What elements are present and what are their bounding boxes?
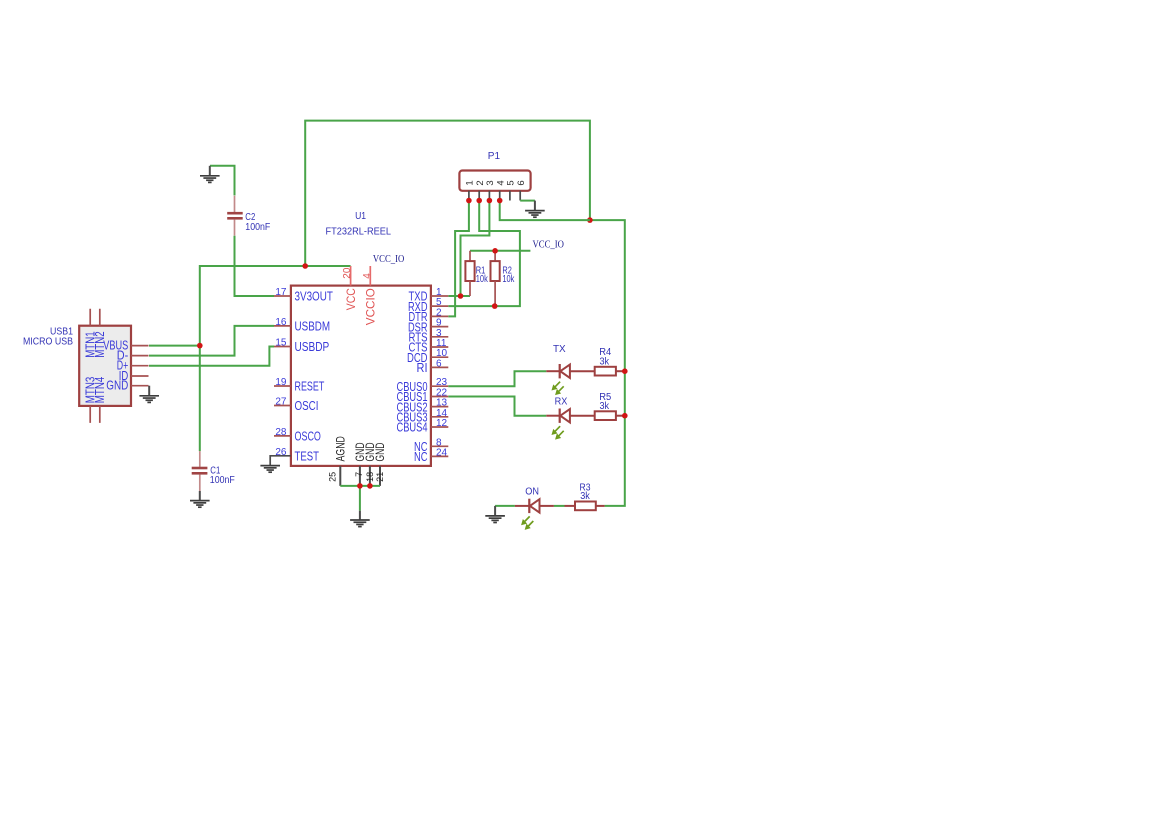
ground top-left: [200, 166, 220, 183]
svg-text:NC: NC: [414, 450, 428, 464]
resistor R4: [595, 347, 625, 375]
node R2 top junction: [492, 248, 498, 254]
svg-text:TEST: TEST: [295, 450, 320, 464]
ground ON row: [485, 506, 505, 523]
svg-text:RI: RI: [417, 361, 428, 375]
ground P1 pin6: [525, 201, 545, 218]
svg-text:20: 20: [342, 267, 353, 279]
node rail top junction: [587, 217, 593, 223]
node TXD junction: [458, 293, 464, 299]
svg-text:3k: 3k: [600, 356, 611, 367]
resistor R2: [491, 251, 516, 306]
svg-text:ON: ON: [525, 486, 539, 497]
wire GND to C2 top: [210, 166, 235, 196]
node VBUS junction: [197, 343, 203, 349]
wire P1 pin2 to RXD: [448, 201, 520, 307]
svg-text:6: 6: [436, 358, 442, 369]
resistor R3: [565, 482, 605, 510]
node P1 pin1: [466, 198, 472, 204]
pin 20 VCC: [342, 266, 358, 310]
wire ON row gnd side: [495, 505, 515, 507]
ground IC bottom: [350, 511, 370, 527]
LED RX: [546, 396, 594, 439]
svg-text:VCC_IO: VCC_IO: [373, 254, 405, 265]
svg-text:15: 15: [275, 338, 287, 349]
node gnd junction 1: [357, 483, 363, 489]
wire C2 bottom to 3V3OUT: [235, 236, 275, 296]
wire CBUS0 to TX LED: [448, 371, 546, 386]
node rail R4 junction: [622, 368, 628, 374]
node rail R5 junction: [622, 413, 628, 419]
svg-text:AGND: AGND: [336, 436, 348, 461]
svg-text:100nF: 100nF: [245, 222, 270, 233]
wire VBUS rail vertical + VCC horizontal: [200, 266, 351, 451]
U1 left pins: [274, 296, 291, 436]
capacitor C1: [192, 451, 235, 491]
svg-text:USBDP: USBDP: [295, 340, 330, 354]
svg-text:MTN2: MTN2: [93, 331, 107, 358]
node P1 pin4: [497, 198, 503, 204]
IC U1 FT232RL-REEL body: [291, 211, 431, 466]
wire VCC_IO to R1 R2 tops: [470, 250, 530, 252]
wire P1 pin3 to TXD: [461, 201, 490, 297]
svg-text:VCC_IO: VCC_IO: [533, 240, 565, 251]
wire right rail: [590, 220, 625, 506]
svg-text:USBDM: USBDM: [295, 320, 331, 334]
svg-text:10k: 10k: [476, 274, 489, 285]
svg-text:6: 6: [516, 180, 527, 185]
svg-text:OSCI: OSCI: [295, 399, 319, 413]
wire P1 pin4 to rail: [500, 201, 590, 221]
wire D+ to USBDP: [149, 347, 274, 366]
svg-text:FT232RL-REEL: FT232RL-REEL: [326, 227, 392, 238]
svg-text:U1: U1: [355, 211, 366, 222]
wire D- to USBDM: [149, 326, 274, 356]
svg-text:GND: GND: [106, 379, 128, 393]
svg-text:RESET: RESET: [295, 380, 325, 394]
svg-text:GND: GND: [375, 443, 387, 462]
svg-text:3V3OUT: 3V3OUT: [295, 290, 334, 304]
wire CBUS1 to RX LED: [448, 397, 546, 416]
pin 26 TEST to ground: [260, 456, 290, 472]
resistor R5: [595, 392, 625, 420]
ground USB GND pin: [139, 386, 159, 403]
LED ON: [515, 486, 554, 529]
svg-text:10k: 10k: [502, 274, 515, 285]
svg-text:12: 12: [436, 418, 448, 429]
svg-text:100nF: 100nF: [210, 475, 235, 486]
svg-text:4: 4: [362, 273, 373, 279]
svg-text:24: 24: [436, 447, 448, 458]
resistor R1: [465, 251, 488, 296]
svg-text:28: 28: [275, 427, 287, 438]
svg-text:VCC: VCC: [346, 288, 358, 310]
wire TXD row: [448, 295, 470, 297]
node P1 pin2: [476, 198, 482, 204]
svg-text:19: 19: [275, 377, 287, 388]
svg-text:OSCO: OSCO: [295, 430, 322, 444]
svg-text:25: 25: [327, 472, 337, 482]
node VCC junction: [302, 263, 308, 269]
wire ON LED to R3: [554, 505, 565, 507]
pin 4 VCCIO: [362, 266, 378, 325]
wire IC ground down: [359, 486, 361, 511]
svg-text:P1: P1: [488, 151, 501, 162]
svg-text:27: 27: [275, 397, 287, 408]
U1 right pins: [431, 296, 448, 456]
svg-text:MICRO USB: MICRO USB: [23, 337, 73, 348]
svg-text:TX: TX: [553, 344, 566, 355]
wire VBUS horizontal: [149, 345, 200, 347]
svg-text:7: 7: [354, 472, 364, 477]
node P1 pin3: [487, 198, 493, 204]
node gnd junction 2: [367, 483, 373, 489]
svg-text:16: 16: [275, 317, 287, 328]
svg-text:17: 17: [275, 287, 287, 298]
wire P1 pin6 to gnd: [520, 200, 535, 202]
connector USB1 MICRO USB: [23, 309, 149, 423]
svg-text:CBUS4: CBUS4: [397, 421, 428, 435]
LED TX: [546, 344, 594, 394]
node RXD junction: [492, 303, 498, 309]
capacitor C2: [227, 196, 270, 236]
svg-text:RX: RX: [555, 396, 568, 407]
ground C1: [190, 491, 210, 507]
U1 bottom pins AGND GND GND GND: [327, 436, 387, 486]
wire P1 pin1 to DTR: [448, 201, 469, 317]
svg-text:18: 18: [365, 472, 375, 482]
connector P1: [459, 151, 530, 201]
wire IC ground bus: [340, 485, 380, 487]
wire top loop P1 pin4 to VCC: [305, 121, 590, 266]
svg-text:21: 21: [375, 472, 385, 482]
svg-text:MTN4: MTN4: [93, 377, 107, 404]
svg-text:VCCIO: VCCIO: [366, 288, 378, 325]
